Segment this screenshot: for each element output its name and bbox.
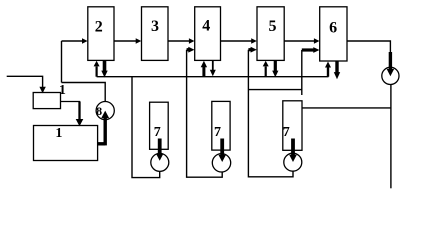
svg-text:5: 5 <box>269 18 277 35</box>
svg-text:7: 7 <box>154 125 161 140</box>
svg-text:1: 1 <box>55 126 62 141</box>
svg-text:8: 8 <box>96 104 102 118</box>
svg-text:6: 6 <box>329 19 337 36</box>
svg-text:7: 7 <box>214 125 221 140</box>
svg-text:1: 1 <box>59 83 66 98</box>
svg-text:2: 2 <box>95 18 103 35</box>
svg-text:7: 7 <box>283 125 290 140</box>
svg-text:3: 3 <box>151 18 159 35</box>
svg-text:4: 4 <box>202 17 210 34</box>
